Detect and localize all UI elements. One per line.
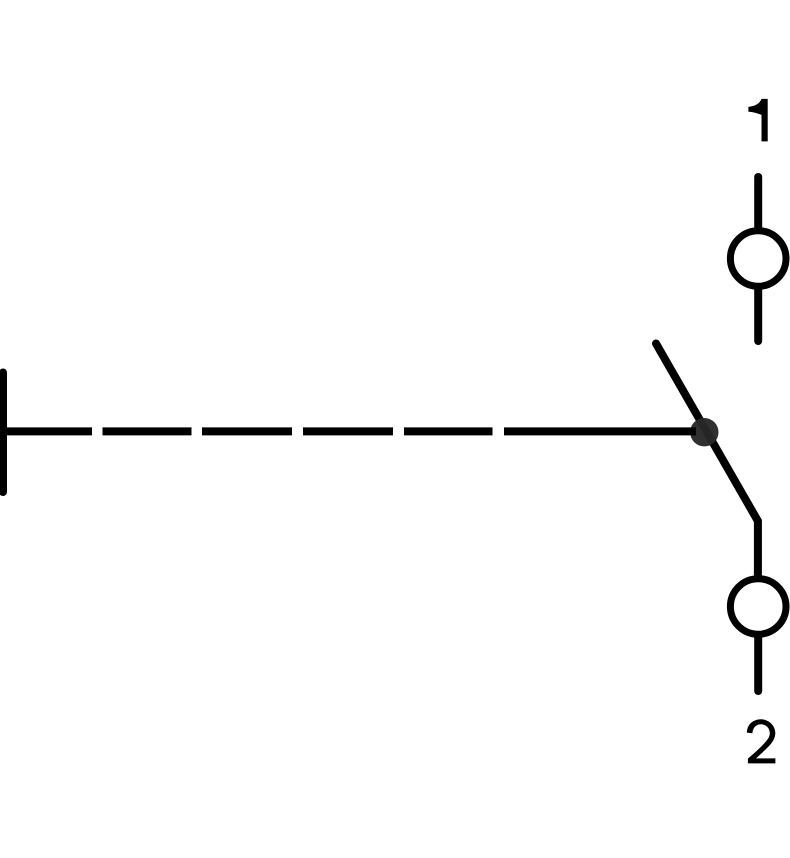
wire: terminal 2 lead (below contact circle) [754, 637, 762, 691]
wire: terminal 1 lead (vertical, through contact circle) [754, 177, 762, 341]
pivot dot (junction) [690, 418, 718, 446]
actuator bar (manual operating member, clipped at left edge) [0, 373, 7, 493]
contact circle, terminal 2 [730, 579, 786, 635]
terminal label 2 [747, 719, 776, 763]
switch lever (moving contact) with wire down to terminal 2 [656, 344, 758, 581]
terminal label 1 [748, 99, 767, 141]
contact circle, terminal 1 [730, 231, 786, 287]
mechanical linkage: dashed wire from actuator to pivot [2, 427, 696, 435]
